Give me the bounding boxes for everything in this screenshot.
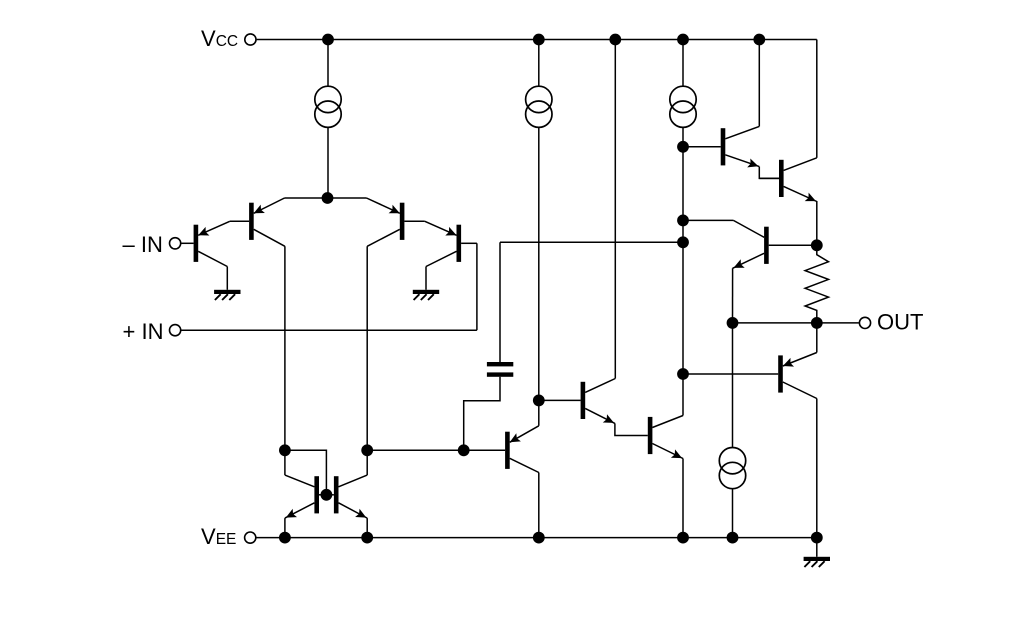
transistor Q2 (PNP, left inner)	[230, 198, 285, 246]
wire: I4 to Vee	[732, 489, 734, 538]
label -IN	[123, 232, 163, 257]
wire: Q4 collector down	[425, 267, 427, 290]
wire: Q9 emitter to Vee	[682, 459, 684, 538]
wire: Q8 emitter down to bias node	[816, 201, 818, 245]
junction: x683 / Q11 collector	[677, 215, 689, 227]
resistor R1	[805, 245, 828, 323]
wire: Q10 collector to Vee	[816, 399, 818, 538]
transistor Q5 (PNP, second stage)	[505, 426, 539, 473]
junction: rail / I2	[533, 34, 545, 46]
wire: QM2 collector up	[366, 450, 368, 475]
label +IN	[123, 319, 164, 344]
junction: rail / Q7 collector line	[753, 34, 765, 46]
wire: Q7 emitter to Q8 base	[759, 167, 779, 179]
transistor Q10 (PNP output)	[683, 353, 817, 399]
wire: C1 top to y242 net	[499, 242, 501, 362]
transistor QM2 (NPN mirror right)	[326, 475, 367, 518]
junction: Vee / ground	[811, 532, 823, 544]
junction: OUT / R1 bottom	[811, 317, 823, 329]
wire: rail corner to Q8 collector	[816, 40, 818, 158]
junction: x683 / Q10 base	[677, 368, 689, 380]
wire: Vcc top rail	[257, 39, 817, 41]
junction: mirror base node	[321, 489, 333, 501]
wire: I2 to comp node	[538, 127, 540, 400]
junction: Vee / QM1	[279, 532, 291, 544]
svg-text:OUT: OUT	[877, 309, 923, 334]
svg-text:– IN: – IN	[123, 232, 163, 257]
junction: Vee / Q5 collector	[533, 532, 545, 544]
junction: x683 / Q7 base	[677, 141, 689, 153]
wire: C1 bottom jog to Q5 base node	[464, 377, 500, 451]
wire: OUT node to I4	[732, 323, 734, 448]
wire: Q11 emitter down to OUT node	[732, 268, 734, 323]
junction: Vee / Q9 emitter	[677, 532, 689, 544]
wire: Vee rail	[256, 537, 816, 539]
wire: comp node to Q6 base	[539, 399, 581, 401]
current source I3	[670, 86, 696, 127]
wire: rail to I1	[327, 40, 329, 87]
capacitor C1	[487, 362, 513, 377]
junction: rail / Q6 collector line	[609, 34, 621, 46]
junction: Vee / I4	[727, 532, 739, 544]
label Vcc	[201, 26, 238, 51]
transistor Q8 (NPN)	[759, 158, 817, 202]
wire: Q5 emitter up to comp node	[538, 400, 540, 425]
junction: rail / I3	[677, 34, 689, 46]
wire: mirror diode jog	[285, 450, 327, 495]
wire: mirror output to Q5 base	[367, 449, 505, 451]
junction: rail / I1	[322, 34, 334, 46]
current source I4	[719, 448, 745, 489]
wire: Q6 emitter to Q9 base	[615, 423, 648, 435]
transistor Q9 (NPN)	[648, 416, 683, 459]
wire: QM1 emitter down	[284, 518, 286, 538]
transistor Q3 (PNP, right inner)	[367, 198, 425, 246]
wire: OUT line	[733, 322, 859, 324]
transistor Q4 (PNP, +IN follower)	[425, 221, 477, 266]
OUT terminal	[859, 317, 870, 328]
ground (under Q4)	[413, 290, 439, 300]
junction: x683 / y242 net	[677, 236, 689, 248]
wire: Q4 base to +IN	[476, 243, 478, 330]
wire: y242 net (Q3/Q4 side to x683)	[500, 241, 683, 243]
junction: mirror right node	[361, 444, 373, 456]
wire: +IN line	[181, 329, 477, 331]
svg-text:+ IN: + IN	[123, 319, 164, 344]
+IN terminal	[170, 325, 181, 336]
wire: tail node to Q2 emitter	[285, 197, 328, 199]
wire: Q1 collector down	[226, 267, 228, 290]
-IN terminal	[170, 238, 181, 249]
label OUT	[877, 309, 923, 334]
junction: Q5 base node / C1 tap	[458, 444, 470, 456]
wire: Q3 collector to mirror	[366, 246, 368, 450]
wire: Q7 collector to rail	[758, 40, 760, 127]
wire: Q5 collector down to Vee	[538, 473, 540, 538]
wire: I1 to tail node	[327, 127, 329, 198]
wire: tail node to Q3 emitter	[328, 197, 367, 199]
current source I1	[315, 86, 341, 127]
transistor Q7 (NPN)	[683, 126, 759, 167]
junction: Vee / QM2	[361, 532, 373, 544]
wire: Q11 collector to x683	[683, 219, 733, 221]
wire: Q6 collector to rail	[614, 40, 616, 379]
transistor Q6 (NPN driver)	[581, 379, 616, 424]
Vee terminal	[245, 532, 256, 543]
label Vee	[201, 524, 236, 549]
transistor QM1 (NPN mirror left)	[285, 475, 327, 518]
junction: comp node	[533, 395, 545, 407]
wire: Q2 collector to mirror	[284, 246, 286, 450]
wire: rail to I2	[538, 40, 540, 87]
current source I2	[526, 86, 552, 127]
junction: OUT / Q11 emitter	[727, 317, 739, 329]
junction: bias node (Q8e/R1/Q11b)	[811, 239, 823, 251]
wire: Vee to ground	[816, 538, 818, 557]
junction: input tail node	[322, 192, 334, 204]
transistor Q11 (NPN bias)	[733, 220, 817, 268]
wire: QM2 emitter down	[366, 518, 368, 538]
wire: OUT node to Q10 emitter	[816, 323, 818, 353]
wire: QM1 collector up	[284, 450, 286, 475]
Vcc terminal	[245, 34, 256, 45]
wire: rail to I3	[682, 40, 684, 87]
wire: x683 column	[682, 127, 684, 415]
ground (Vee)	[804, 557, 830, 567]
junction: mirror left node	[279, 444, 291, 456]
transistor Q1 (PNP, -IN follower)	[181, 221, 230, 266]
ground (under Q1)	[214, 290, 240, 300]
